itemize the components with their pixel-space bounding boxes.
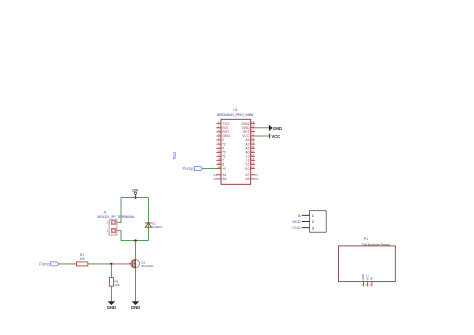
wire: bottom rail down to Q1 drain bbox=[135, 241, 137, 259]
svg-text:P1: P1 bbox=[364, 237, 368, 241]
svg-text:Pump: Pump bbox=[182, 166, 194, 171]
svg-text:VCC: VCC bbox=[292, 219, 301, 224]
svg-text:GND: GND bbox=[107, 305, 116, 310]
wire: Pump label to U1 pin 9 bbox=[203, 168, 217, 170]
svg-text:A7: A7 bbox=[255, 173, 259, 177]
wire: Pump label to R1 bbox=[59, 263, 77, 265]
svg-text:VCC: VCC bbox=[272, 134, 281, 139]
svg-text:A: A bbox=[298, 213, 301, 218]
header pin 2 stub bbox=[302, 221, 310, 223]
ground GND (under R2) bbox=[107, 301, 116, 310]
svg-text:GND: GND bbox=[131, 305, 140, 310]
junction: 12V on top rail bbox=[134, 196, 136, 198]
global label Pump (bottom left) bbox=[39, 261, 59, 266]
svg-text:GND: GND bbox=[273, 126, 282, 131]
IC U1 ARDUINO_PRO_MINI bbox=[213, 108, 258, 184]
ground GND (under Q1) bbox=[131, 301, 140, 310]
wire: U1 pin 23 GND to GND flag bbox=[255, 127, 269, 129]
svg-text:*9: *9 bbox=[222, 167, 225, 171]
power flag GND (right of U1) bbox=[269, 125, 282, 131]
U1 left pin names bbox=[222, 122, 230, 181]
connector J1 MOLEX_2P_TERMINAL bbox=[97, 211, 135, 235]
U1 right pin numbers bbox=[251, 120, 258, 181]
power flag VCC bbox=[270, 134, 280, 140]
svg-text:A0: A0 bbox=[370, 276, 374, 280]
wire: gate node down to R2 bbox=[110, 264, 112, 278]
wire: R2 to ground bbox=[110, 286, 112, 301]
svg-text:A5: A5 bbox=[213, 177, 217, 181]
wire: gate node to Q1 gate bbox=[111, 263, 128, 265]
svg-text:MOLEX_2P_TERMINAL: MOLEX_2P_TERMINAL bbox=[97, 215, 135, 219]
P1 pin 2 stub bbox=[367, 282, 369, 287]
svg-text:IRLZ34N: IRLZ34N bbox=[141, 264, 153, 268]
wire: bottom rail bbox=[121, 240, 148, 242]
svg-text:100: 100 bbox=[79, 257, 85, 261]
U1 left pin stubs bbox=[217, 124, 221, 179]
header pin 3 stub bbox=[302, 227, 310, 229]
P1 pin 3 stub bbox=[371, 282, 373, 287]
module P1 Soil Moisture Sensor bbox=[339, 237, 396, 286]
svg-text:ARDUINO_PRO_MINI: ARDUINO_PRO_MINI bbox=[217, 112, 254, 117]
U1 right pin names bbox=[242, 122, 251, 181]
J1 pin 1 stub bbox=[117, 230, 120, 232]
wire: left drop to J1 pin 2 bbox=[120, 198, 122, 223]
svg-text:2: 2 bbox=[107, 221, 109, 225]
svg-text:A4: A4 bbox=[213, 173, 217, 177]
wire: diode branch vertical bbox=[147, 198, 149, 241]
junction: gate node bbox=[110, 263, 112, 265]
svg-text:A5: A5 bbox=[222, 177, 226, 181]
header pin 1 stub bbox=[302, 214, 310, 216]
P1 body bbox=[339, 246, 396, 282]
U1 right pin stubs bbox=[251, 124, 255, 179]
junction: bottom rail to Q1 drain bbox=[134, 239, 136, 241]
svg-text:A6: A6 bbox=[255, 177, 259, 181]
svg-text:Pump: Pump bbox=[39, 261, 51, 266]
U1 left pin numbers bbox=[213, 120, 220, 181]
wire: Q1 source to ground bbox=[135, 269, 137, 302]
P1 pin 1 stub bbox=[363, 282, 365, 287]
wire: U1 pin 21 VCC to VCC flag bbox=[255, 135, 270, 137]
global label Pump (at U1 pin 9) bbox=[182, 166, 202, 171]
resistor R1 100 bbox=[77, 253, 88, 266]
svg-text:1N4007: 1N4007 bbox=[152, 225, 163, 229]
transistor Q1 IRLZ34N bbox=[129, 259, 154, 269]
J1 body bbox=[109, 220, 117, 235]
power symbol 12V bbox=[132, 188, 139, 197]
svg-text:10K: 10K bbox=[114, 283, 119, 287]
svg-text:GND: GND bbox=[292, 225, 301, 230]
svg-text:12V: 12V bbox=[132, 188, 139, 192]
wire: J1 pin 1 to bottom rail bbox=[120, 231, 122, 241]
resistor R2 10K bbox=[109, 278, 119, 287]
wire: R1 to gate node bbox=[88, 263, 112, 265]
J1 pin 2 stub bbox=[117, 221, 120, 223]
diode D1 1N4007 bbox=[145, 222, 163, 230]
J1 pin 2 contact bbox=[111, 220, 116, 225]
svg-text:*10: *10 bbox=[244, 167, 249, 171]
U1 body outline bbox=[221, 119, 251, 184]
J1 pin 1 contact bbox=[111, 228, 116, 233]
connector 3-pin header (right) bbox=[302, 211, 327, 233]
svg-text:Text: Text bbox=[172, 151, 177, 160]
wire: top rail bbox=[121, 197, 148, 199]
svg-text:1: 1 bbox=[107, 229, 109, 233]
svg-text:A6: A6 bbox=[245, 177, 249, 181]
